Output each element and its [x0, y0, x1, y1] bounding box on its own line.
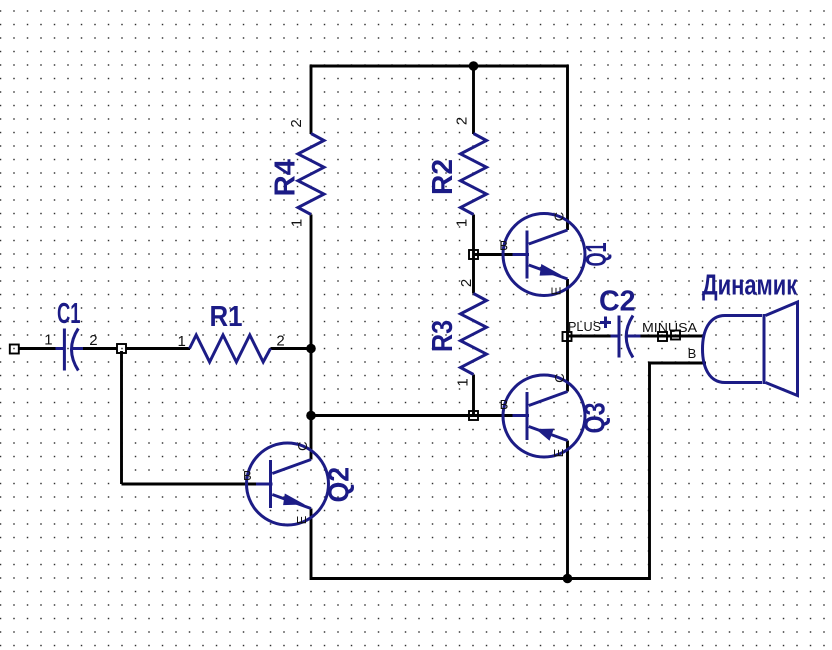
node: pin-end square C2 MINUS — [658, 332, 667, 341]
svg-text:1: 1 — [454, 378, 471, 386]
svg-text:1: 1 — [44, 331, 52, 348]
wire input terminal to C1 pin1 — [18, 347, 57, 350]
svg-text:C: C — [552, 212, 567, 221]
wire top rail and Q1 collector drop — [311, 65, 568, 231]
svg-text:PLUS: PLUS — [568, 319, 601, 334]
wire node to R1 pin1 — [126, 347, 191, 350]
svg-text:MINUSA: MINUSA — [642, 320, 697, 335]
svg-text:Q3: Q3 — [580, 403, 612, 434]
wire Q1 emitter to Q3 collector column — [566, 279, 569, 392]
svg-text:2: 2 — [453, 117, 470, 125]
svg-text:E: E — [549, 286, 564, 295]
node: input terminal square — [10, 345, 19, 354]
transistor Q1 (NPN) — [503, 214, 613, 296]
wire R2 pin1 to R3 pin2 — [472, 215, 475, 294]
svg-text:C2: C2 — [599, 286, 636, 318]
wire Q2 base row — [122, 483, 258, 486]
resistor R2 — [427, 134, 487, 215]
svg-text:1: 1 — [453, 219, 470, 227]
svg-text:1: 1 — [289, 219, 306, 227]
svg-text:E: E — [551, 448, 566, 457]
wire C1 pin2 to node — [83, 347, 118, 350]
wire R4 top lead — [310, 66, 313, 134]
svg-text:2: 2 — [288, 119, 305, 127]
node: pin-end square speaker A — [671, 331, 680, 340]
wire Q3 emitter / bottom rail / speaker pin B riser — [311, 363, 706, 579]
capacitor C2 — [599, 286, 641, 358]
svg-text:B: B — [499, 238, 508, 253]
svg-text:R3: R3 — [427, 320, 459, 352]
speaker "Динамик" — [702, 270, 798, 396]
svg-text:B: B — [243, 468, 252, 483]
node: junction dot left column / Q3 base row — [306, 411, 316, 421]
svg-text:R4: R4 — [270, 159, 302, 197]
svg-text:2: 2 — [89, 332, 97, 349]
svg-text:C: C — [295, 442, 310, 451]
wire node to Q1 base — [474, 253, 514, 256]
wire C1 node down to Q2 base row — [120, 351, 123, 484]
wire R1 pin2 to left column — [271, 347, 313, 350]
svg-text:E: E — [294, 515, 309, 524]
svg-text:Q1: Q1 — [581, 243, 613, 267]
svg-text:2: 2 — [458, 279, 475, 287]
svg-text:1: 1 — [178, 333, 186, 350]
wire node to C2 plus — [568, 335, 612, 338]
node: junction dot bottom rail / Q3 emitter — [563, 574, 573, 584]
svg-text:Q2: Q2 — [324, 467, 356, 503]
svg-text:B: B — [500, 397, 509, 412]
svg-text:Динамик: Динамик — [702, 270, 798, 302]
resistor R4 — [270, 134, 325, 215]
node: junction square after C1 — [117, 344, 126, 353]
svg-text:R2: R2 — [427, 159, 459, 195]
node: junction square C2 PLUS — [563, 332, 572, 341]
node: junction dot R1 pin2 / left column — [306, 344, 316, 354]
svg-text:C1: C1 — [57, 298, 81, 330]
node: junction dot top rail / R2 — [469, 61, 479, 71]
svg-text:C: C — [552, 373, 567, 382]
transistor Q2 (NPN) — [247, 443, 356, 525]
wire C2 minus to speaker pin A — [640, 335, 705, 338]
resistor R1 — [190, 301, 271, 362]
wire node row to Q3 base — [311, 414, 513, 417]
wire R2 top lead — [472, 66, 475, 134]
wire R3 pin1 bottom lead — [472, 375, 475, 416]
capacitor C1 — [56, 298, 84, 371]
node: junction square R2/R3/Q1 base — [469, 250, 478, 259]
wire left column R4 to Q2 collector — [310, 215, 313, 460]
svg-text:R1: R1 — [210, 301, 243, 333]
node: junction square R3 pin1 / Q3 base row — [469, 411, 478, 420]
svg-text:B: B — [688, 346, 697, 361]
svg-text:2: 2 — [276, 332, 284, 349]
transistor Q3 (PNP) — [503, 375, 612, 457]
resistor R3 — [427, 294, 487, 375]
